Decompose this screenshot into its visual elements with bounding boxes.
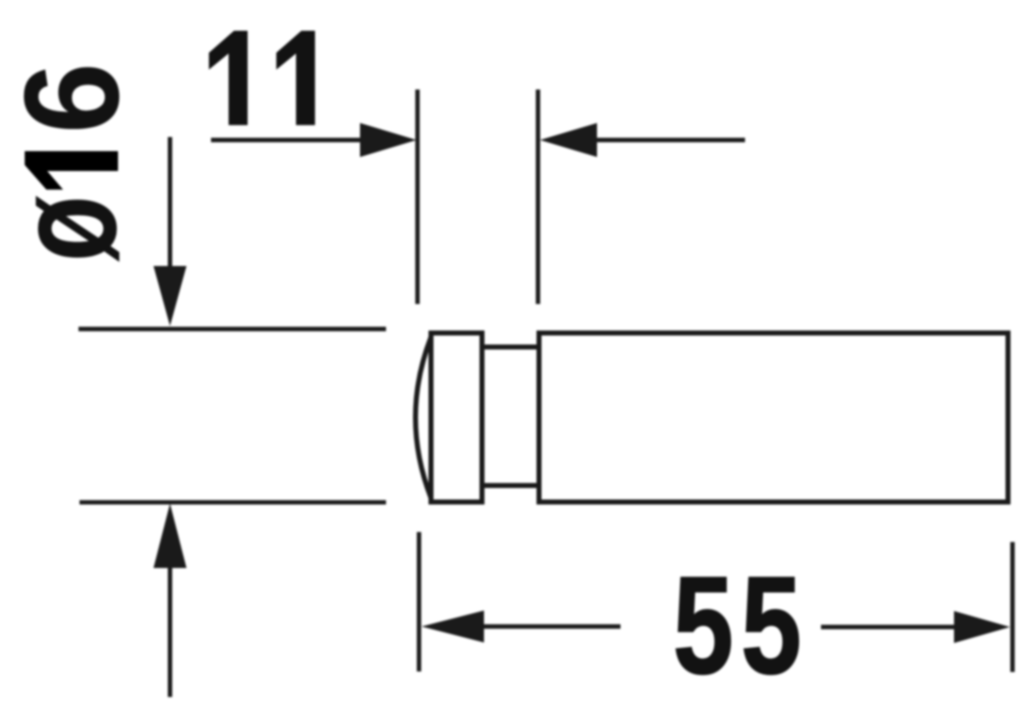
svg-text:6: 6 (0, 62, 147, 133)
svg-text:5: 5 (741, 548, 802, 703)
svg-text:5: 5 (673, 548, 734, 703)
svg-text:ø: ø (0, 195, 147, 262)
